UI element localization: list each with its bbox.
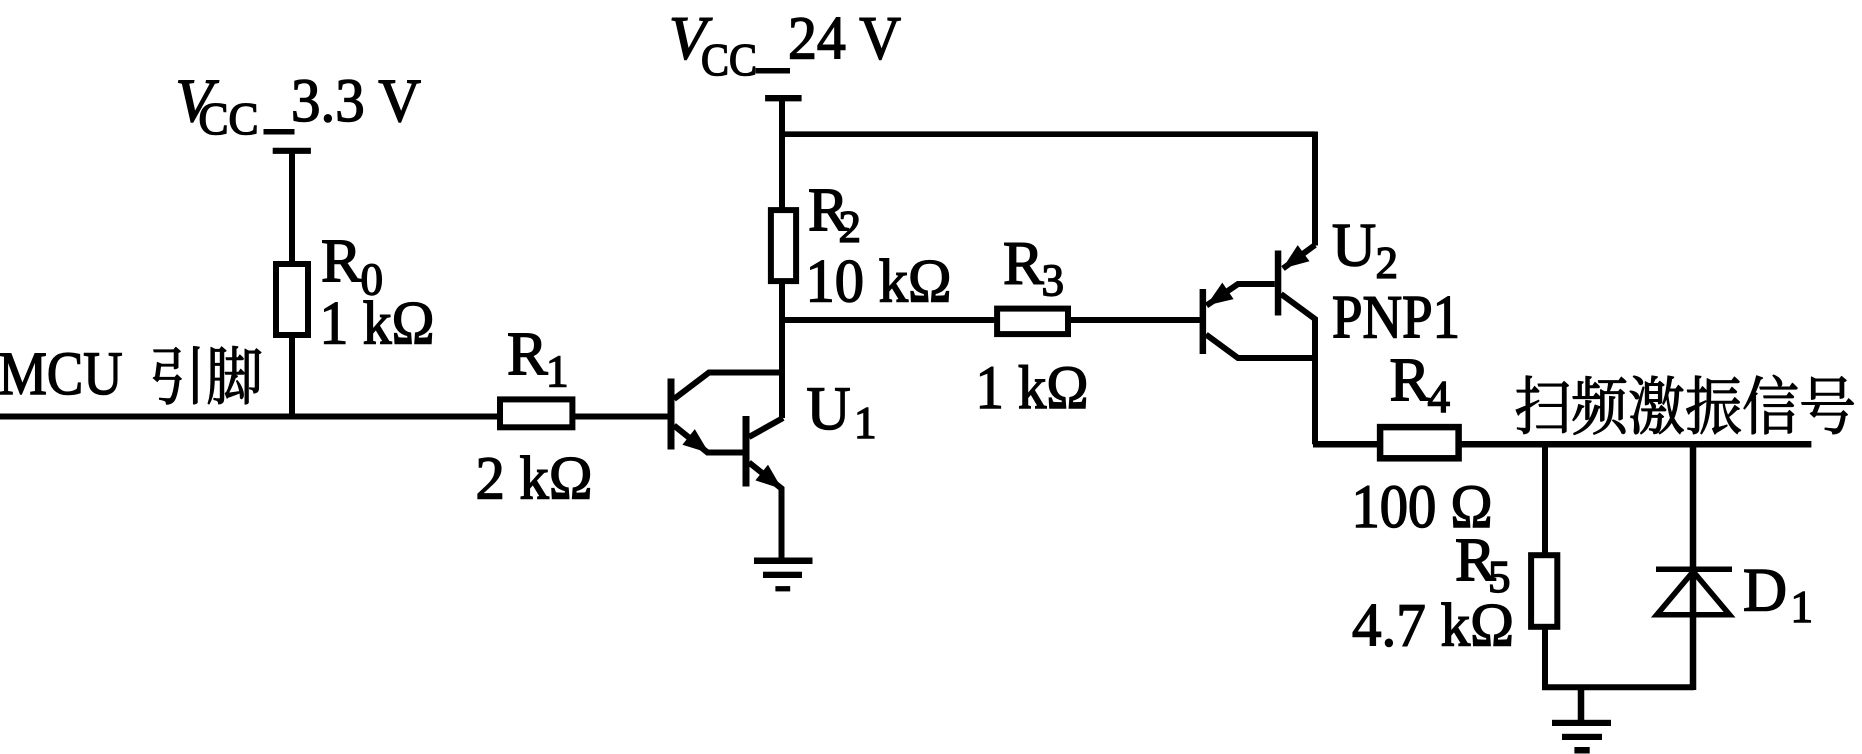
svg-text:CC: CC [701,35,757,85]
svg-text:R: R [507,321,548,388]
svg-text:1: 1 [1791,582,1814,632]
svg-text:CC: CC [199,94,259,144]
svg-text:4.7 kΩ: 4.7 kΩ [1352,593,1514,660]
svg-text:2: 2 [839,202,862,252]
svg-text:U: U [1332,213,1376,280]
svg-text:1 kΩ: 1 kΩ [976,355,1089,422]
svg-text:R: R [1003,231,1044,298]
svg-text:3.3 V: 3.3 V [291,68,421,135]
svg-text:3: 3 [1042,256,1065,306]
svg-text:10 kΩ: 10 kΩ [806,249,952,316]
svg-text:U: U [807,376,851,443]
svg-text:4: 4 [1428,372,1451,422]
svg-text:2 kΩ: 2 kΩ [476,446,593,513]
svg-text:D: D [1743,558,1787,625]
svg-text:2: 2 [1376,238,1399,288]
svg-text:PNP1: PNP1 [1332,285,1460,352]
svg-text:1: 1 [546,347,569,397]
svg-text:24 V: 24 V [788,6,901,73]
svg-text:R: R [321,228,362,295]
svg-text:1 kΩ: 1 kΩ [320,291,435,358]
svg-text:1: 1 [854,398,877,448]
svg-text:R: R [1390,347,1431,414]
svg-text:MCU: MCU [0,341,123,408]
